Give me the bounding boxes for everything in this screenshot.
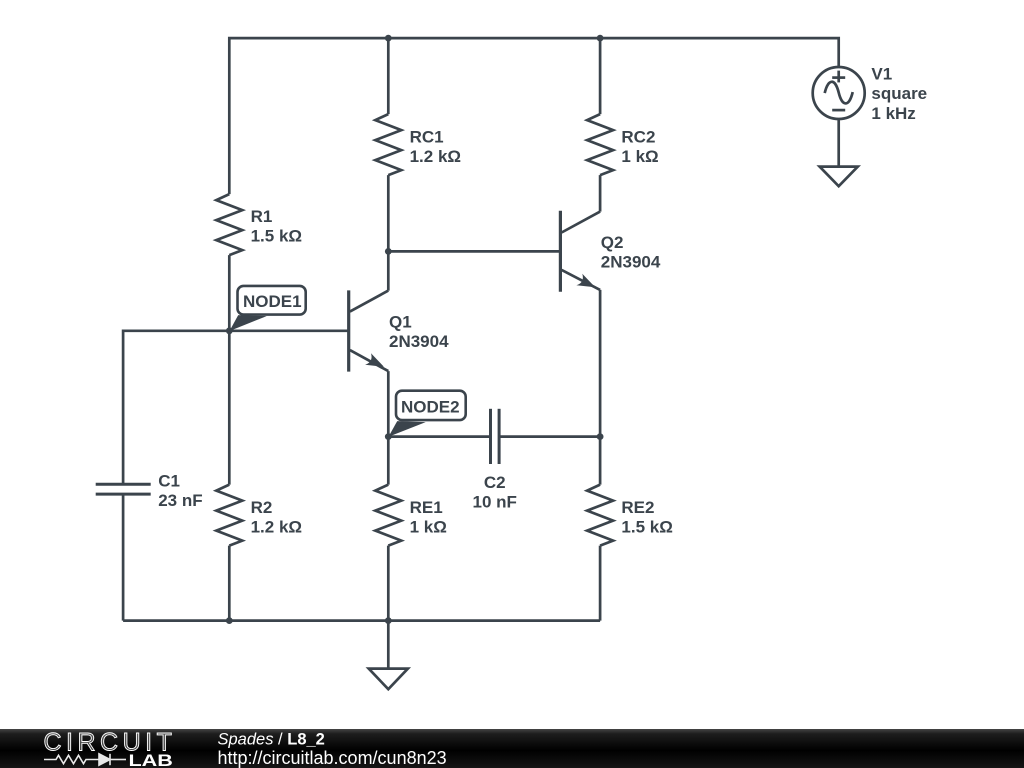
wire top rail xyxy=(229,38,838,194)
svg-text:1 kHz: 1 kHz xyxy=(871,104,915,123)
wire NODE2 to C2 xyxy=(388,435,490,438)
svg-text:10 nF: 10 nF xyxy=(472,492,516,511)
wire Q1 emitter to NODE2 xyxy=(387,371,390,485)
wire RC2 top lead xyxy=(599,38,602,114)
wire C1 bottom lead xyxy=(122,494,125,620)
capacitor C2 plates xyxy=(489,409,492,464)
svg-text:1.2 kΩ: 1.2 kΩ xyxy=(410,147,461,166)
svg-text:NODE2: NODE2 xyxy=(401,398,460,417)
resistor R1 xyxy=(216,194,242,255)
svg-text:1 kΩ: 1 kΩ xyxy=(410,517,447,536)
logo LAB xyxy=(129,751,173,768)
wire R2 bottom to bottom rail xyxy=(228,546,231,621)
footer bar xyxy=(0,729,1024,768)
wire RC2 bottom to Q2 collector xyxy=(599,175,602,212)
logo resistor-diode glyph xyxy=(44,754,126,765)
transistor Q1 xyxy=(349,290,389,371)
svg-text:1.2 kΩ: 1.2 kΩ xyxy=(251,517,302,536)
node NODE1 callout xyxy=(230,286,306,331)
transistor Q2 xyxy=(560,211,600,292)
svg-text:http://circuitlab.com/cun8n23: http://circuitlab.com/cun8n23 xyxy=(218,748,447,768)
junction RC2/top rail xyxy=(597,35,604,42)
resistor RE2 xyxy=(587,485,613,546)
resistor RC1 xyxy=(375,114,401,175)
svg-text:2N3904: 2N3904 xyxy=(389,332,449,351)
resistor RC2 xyxy=(587,114,613,175)
ground under V1 xyxy=(820,119,858,186)
wire RE1 bottom xyxy=(387,546,390,621)
svg-text:RC1: RC1 xyxy=(410,128,444,147)
wire RC1 bottom to Q1 collector xyxy=(387,175,390,291)
wire C2 to RE2 branch xyxy=(499,435,600,438)
svg-text:1.5 kΩ: 1.5 kΩ xyxy=(251,226,302,245)
resistor R2 xyxy=(216,485,242,546)
svg-text:1.5 kΩ: 1.5 kΩ xyxy=(621,517,672,536)
ground main xyxy=(369,621,408,690)
svg-text:2N3904: 2N3904 xyxy=(601,253,661,272)
wire Q2 emitter down to RE2 xyxy=(599,290,602,485)
wire Q1-Q2 base coupling xyxy=(388,250,560,253)
junction node NODE2 xyxy=(385,433,392,440)
junction RE1/ground/bottom rail xyxy=(385,617,392,624)
node NODE2 callout xyxy=(389,391,466,437)
svg-text:V1: V1 xyxy=(871,65,892,84)
svg-text:RE1: RE1 xyxy=(410,498,443,517)
wire RC1 top lead xyxy=(387,38,390,114)
svg-text:RE2: RE2 xyxy=(621,498,654,517)
svg-text:Q2: Q2 xyxy=(601,233,624,252)
svg-text:C2: C2 xyxy=(484,473,506,492)
wire RE2 bottom xyxy=(599,546,602,621)
wire NODE1 horizontal xyxy=(123,331,349,485)
junction Q1 collector / Q2 base xyxy=(385,248,392,255)
svg-text:LAB: LAB xyxy=(129,751,173,768)
svg-text:Spades / L8_2: Spades / L8_2 xyxy=(218,731,325,749)
svg-text:NODE1: NODE1 xyxy=(243,292,302,311)
svg-text:R1: R1 xyxy=(251,207,273,226)
junction C2/RE2 xyxy=(597,433,604,440)
voltage source V1 xyxy=(813,67,865,119)
svg-text:square: square xyxy=(871,84,927,103)
svg-text:C1: C1 xyxy=(158,472,180,491)
svg-text:23 nF: 23 nF xyxy=(158,491,202,510)
svg-text:RC2: RC2 xyxy=(621,128,655,147)
svg-text:R2: R2 xyxy=(251,498,273,517)
svg-text:Q1: Q1 xyxy=(389,312,412,331)
wire bottom rail xyxy=(123,619,600,622)
wire R1 bottom to R2 top xyxy=(228,255,231,485)
junction node NODE1 xyxy=(226,327,233,334)
capacitor C1 plates xyxy=(96,483,151,486)
junction RC1/top rail xyxy=(385,35,392,42)
svg-text:1 kΩ: 1 kΩ xyxy=(621,147,658,166)
resistor RE1 xyxy=(375,485,401,546)
junction R2/bottom rail xyxy=(226,617,233,624)
